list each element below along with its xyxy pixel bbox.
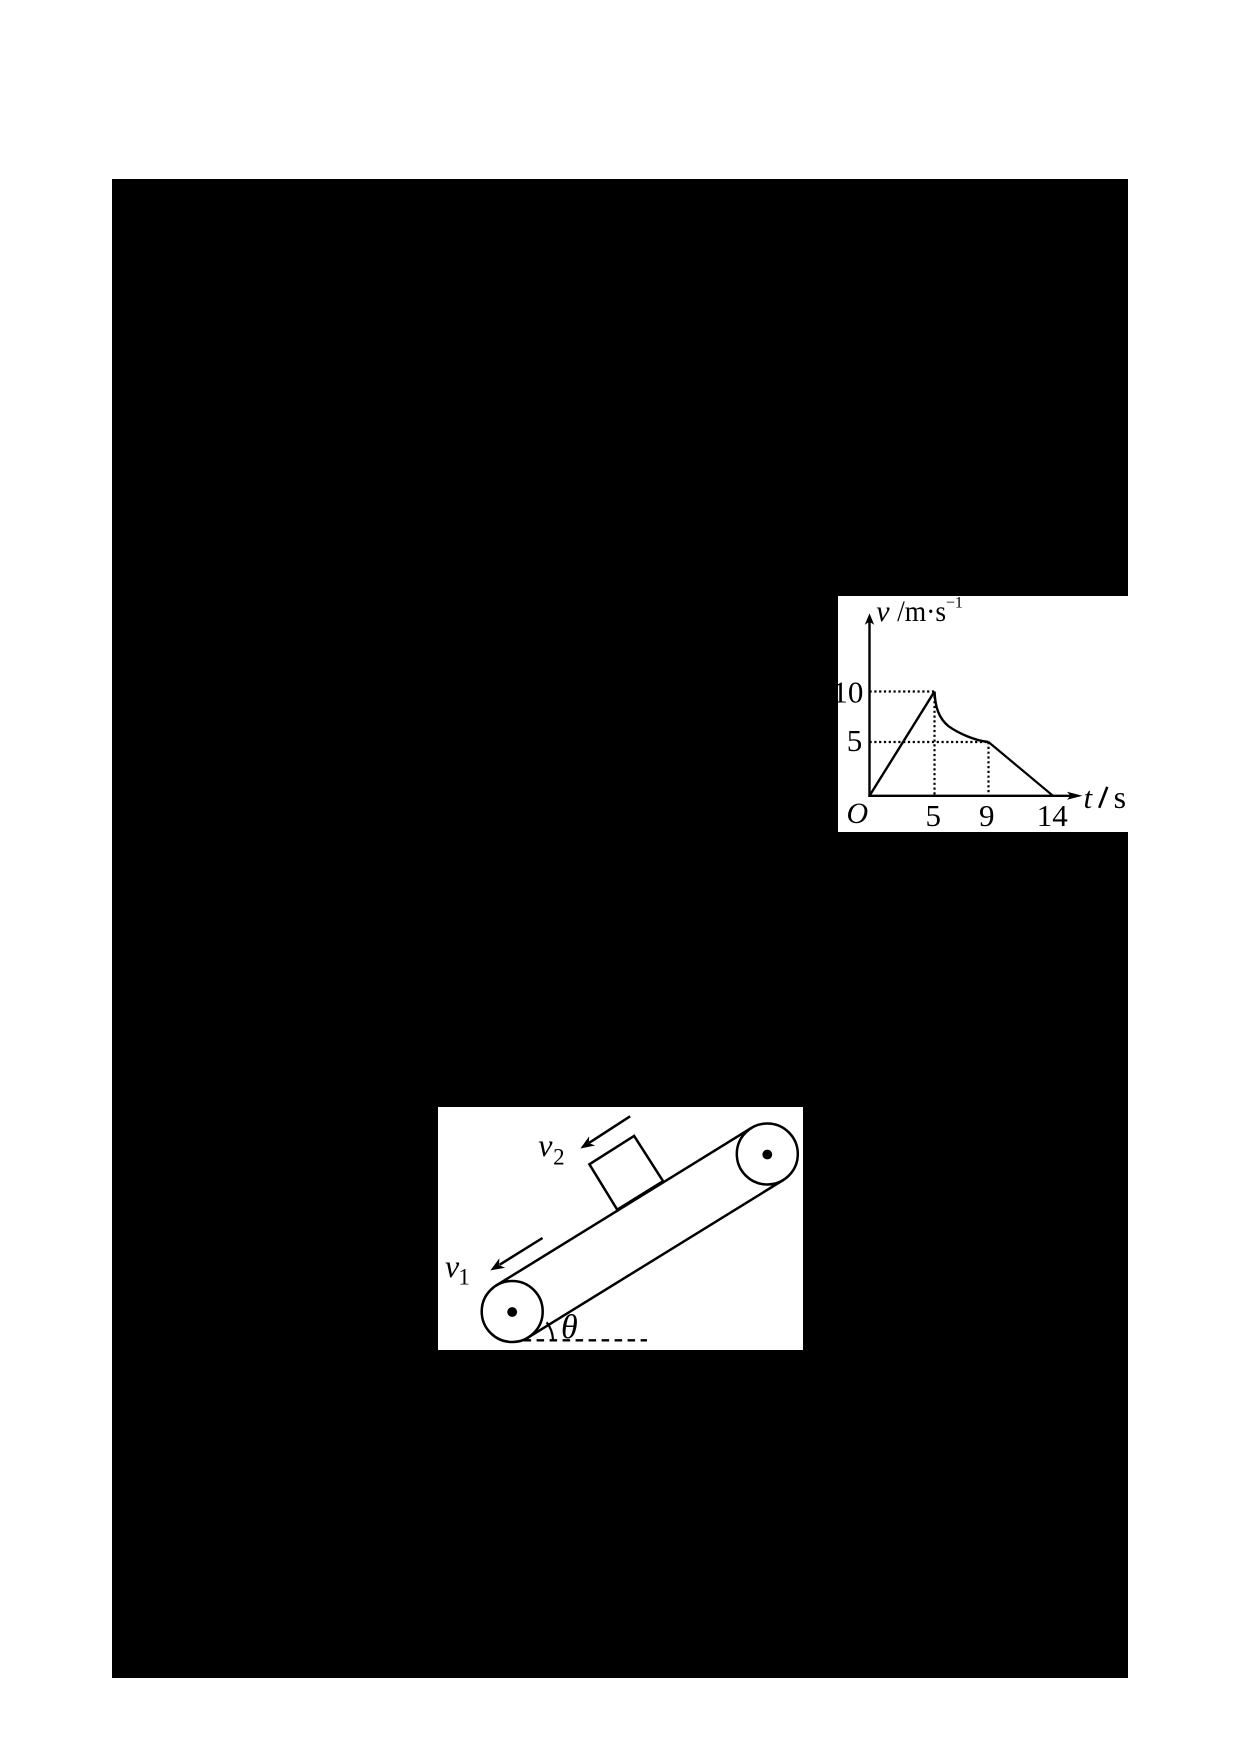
- lower roller axle dot: [507, 1307, 517, 1317]
- svg-text:5: 5: [847, 723, 863, 758]
- svg-text:10: 10: [838, 674, 863, 709]
- upper roller circle: [737, 1124, 798, 1185]
- rising line segment 0-5s: [870, 692, 935, 796]
- svg-text:2: 2: [553, 1144, 565, 1169]
- angle arc: [547, 1322, 553, 1339]
- v2 arrowhead: [580, 1136, 595, 1148]
- block on belt: [589, 1136, 663, 1210]
- dotted line t=9: [987, 742, 989, 796]
- v1 arrow shaft: [500, 1238, 543, 1265]
- dotted line v=5: [870, 741, 989, 743]
- svg-text:s: s: [1114, 779, 1126, 815]
- svg-text:14: 14: [1037, 798, 1069, 832]
- svg-text:O: O: [847, 797, 869, 830]
- black content block: [112, 179, 1128, 1678]
- dotted line t=5: [933, 692, 935, 796]
- y axis arrowhead: [865, 613, 874, 624]
- y axis: [868, 620, 870, 797]
- svg-text:t: t: [1084, 780, 1094, 815]
- svg-text:v: v: [538, 1127, 553, 1163]
- dotted line v=10: [870, 690, 935, 692]
- figure 1: v-t graph panel: [838, 596, 1128, 832]
- belt upper line: [496, 1128, 751, 1286]
- svg-text:−1: −1: [946, 596, 963, 612]
- lower roller circle: [482, 1281, 543, 1342]
- svg-text:θ: θ: [561, 1309, 578, 1346]
- upper roller axle dot: [762, 1150, 772, 1160]
- belt lower line: [524, 1180, 784, 1340]
- v1 arrowhead: [490, 1258, 505, 1270]
- decay curve 5-9s: [935, 692, 989, 743]
- dashed ground line: [524, 1339, 647, 1341]
- x axis: [868, 795, 1076, 797]
- svg-text:9: 9: [979, 798, 995, 832]
- v2 arrow shaft: [589, 1116, 630, 1143]
- x axis arrowhead: [1067, 792, 1083, 800]
- svg-text:1: 1: [458, 1264, 470, 1289]
- label / (drawn as line to match slant): [1099, 787, 1107, 808]
- figure 2: inclined conveyor belt panel: [438, 1107, 803, 1350]
- descending line 9-14s: [989, 742, 1054, 796]
- svg-text:v: v: [876, 596, 890, 628]
- svg-text:5: 5: [925, 798, 941, 832]
- svg-text:/m·s: /m·s: [897, 596, 946, 628]
